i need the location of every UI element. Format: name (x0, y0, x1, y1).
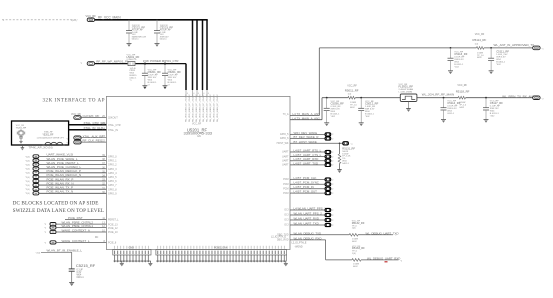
svg-text:L4 TX_MAIN_A_AN2: L4 TX_MAIN_A_AN2 (293, 116, 321, 120)
svg-text:*2(4): *2(4) (25, 185, 30, 187)
svg-text:PCIE_12: PCIE_12 (108, 227, 118, 230)
svg-text:UART: UART (282, 155, 289, 158)
svg-text:PA_VDD_MAIN_BT_2G4XX: PA_VDD_MAIN_BT_2G4XX (209, 94, 212, 122)
svg-text:XTAL_IN: XTAL_IN (108, 129, 118, 132)
svg-text:PCM: PCM (283, 192, 288, 195)
svg-text:*2(4): *2(4) (25, 177, 30, 179)
svg-text:C5113_RF: C5113_RF (454, 52, 467, 56)
svg-text:PA_VDD_MAIN_BT_2G4XX: PA_VDD_MAIN_BT_2G4XX (199, 94, 202, 122)
svg-text:GPIO_6: GPIO_6 (280, 137, 289, 140)
svg-text:R5114_RF: R5114_RF (473, 38, 487, 42)
svg-text:GCI: GCI (284, 209, 289, 212)
svg-text:GPIO_9: GPIO_9 (108, 192, 117, 195)
svg-text:32KOUT: 32KOUT (108, 117, 118, 120)
svg-text:C5117_RF: C5117_RF (490, 101, 503, 105)
svg-text:R5131_RF: R5131_RF (342, 147, 355, 151)
svg-text:CLK32K_RF: CLK32K_RF (83, 114, 100, 118)
svg-text:R5118_RF: R5118_RF (456, 89, 470, 93)
svg-text:Y5201_RF: Y5201_RF (16, 127, 27, 129)
svg-text:C5201_RF: C5201_RF (148, 70, 162, 74)
svg-text:WAKE_CONTEXT_A: WAKE_CONTEXT_A (62, 228, 90, 232)
svg-text:PA_VDD_MAIN_BT_2G4XX: PA_VDD_MAIN_BT_2G4XX (192, 94, 195, 122)
svg-text:PA_VDD_MAIN_BT_2G4XX: PA_VDD_MAIN_BT_2G4XX (206, 94, 209, 122)
svg-text:GPIO_6: GPIO_6 (108, 180, 117, 183)
svg-text:PA_VDD_MAIN_BT_2G4XX: PA_VDD_MAIN_BT_2G4XX (195, 94, 198, 122)
svg-text:WLAN_DEBUG_TXD: WLAN_DEBUG_TXD (294, 231, 322, 235)
svg-text:DC BLOCKS LOCATED ON AP SIDE: DC BLOCKS LOCATED ON AP SIDE (13, 201, 99, 207)
svg-text:0402-1: 0402-1 (160, 39, 168, 41)
svg-text:DC: DC (95, 237, 99, 239)
svg-text:0201-1: 0201-1 (447, 113, 455, 115)
svg-text:UART: UART (282, 151, 289, 154)
svg-text:*2(4): *2(4) (25, 189, 30, 191)
svg-text:WL_DEBUG_UART_RXD: WL_DEBUG_UART_RXD (367, 256, 400, 260)
svg-text:L4 BT_PCM_SYNC: L4 BT_PCM_SYNC (294, 181, 319, 185)
svg-text:C5201_RF: C5201_RF (168, 70, 182, 74)
svg-text:L.13X1.05MM: L.13X1.05MM (399, 91, 413, 93)
svg-text:PCM: PCM (283, 178, 288, 181)
svg-text:FL5001_RF: FL5001_RF (399, 84, 414, 88)
svg-text:R5132_RF: R5132_RF (352, 221, 365, 225)
svg-text:PA_VDD_MAIN_BT_2G4XX: PA_VDD_MAIN_BT_2G4XX (202, 94, 205, 122)
svg-text:WLAN_UART_RXD: WLAN_UART_RXD (294, 216, 320, 220)
svg-text:BT_HOST_WAKE: BT_HOST_WAKE (294, 140, 317, 144)
svg-text:GPIO_7: GPIO_7 (108, 184, 117, 187)
svg-text:32K INTERFACE TO AP: 32K INTERFACE TO AP (43, 98, 105, 103)
svg-text:0402-1: 0402-1 (342, 163, 349, 165)
svg-text:VCC_RF: VCC_RF (192, 123, 202, 125)
svg-text:WLAN_DEBUG_RXD: WLAN_DEBUG_RXD (294, 236, 322, 240)
svg-text:*402: *402 (365, 116, 370, 118)
svg-text:GPIO_3: GPIO_3 (108, 168, 117, 171)
svg-text:L2_IO_PTH_E: L2_IO_PTH_E (292, 243, 307, 245)
svg-text:GPIO_5: GPIO_5 (280, 133, 289, 136)
svg-text:PA_VDD_MAIN_BT_2G4XX: PA_VDD_MAIN_BT_2G4XX (216, 94, 219, 122)
svg-text:GPIO_0: GPIO_0 (108, 156, 117, 159)
svg-text:WLAN_UART_TXD: WLAN_UART_TXD (294, 221, 319, 225)
svg-text:R5011_RF: R5011_RF (345, 88, 359, 92)
svg-text:WL_RFIN_TX_RX_ANT: WL_RFIN_TX_RX_ANT (502, 94, 534, 98)
svg-text:L2_IO_PTH_E: L2_IO_PTH_E (271, 237, 286, 239)
svg-text:HOST_WK: HOST_WK (277, 142, 289, 145)
svg-text:UART: UART (282, 164, 289, 167)
svg-text:1.2X61(32K)-NOT DRIVE OPT: 1.2X61(32K)-NOT DRIVE OPT (37, 138, 65, 140)
svg-text:R5133_RF: R5133_RF (352, 246, 365, 250)
svg-text:PA_VDD_MAIN_BT_2G4XX: PA_VDD_MAIN_BT_2G4XX (213, 94, 216, 122)
svg-text:GCI: GCI (284, 219, 289, 222)
svg-text:PCIE_8: PCIE_8 (108, 242, 117, 245)
svg-text:WLAN_UART_PPS_2: WLAN_UART_PPS_2 (294, 211, 323, 215)
svg-text:C5012_RF: C5012_RF (365, 101, 379, 105)
svg-text:*402: *402 (454, 67, 459, 69)
svg-text:PA_VDD_MAIN_BT_2G4XX: PA_VDD_MAIN_BT_2G4XX (185, 94, 188, 122)
svg-text:*402: *402 (496, 64, 501, 66)
svg-text:GPIO_5: GPIO_5 (108, 176, 117, 179)
svg-text:WLAN_P5RE_CNTRL1: WLAN_P5RE_CNTRL1 (62, 224, 94, 228)
svg-text:GPIO_2: GPIO_2 (108, 164, 117, 167)
svg-text:*2(4): *2(4) (25, 173, 30, 175)
svg-text:GPIO_4: GPIO_4 (108, 172, 117, 175)
svg-text:XTAL_RF: XTAL_RF (44, 130, 53, 133)
svg-text:WL_2G4_RF_RF_MAIN: WL_2G4_RF_RF_MAIN (422, 92, 454, 96)
svg-text:*2(4): *2(4) (25, 165, 30, 167)
svg-text:TP4K_AP_XO (N): TP4K_AP_XO (N) (28, 145, 52, 149)
svg-text:VCC_RF: VCC_RF (457, 84, 467, 87)
svg-text:VCC_RF: VCC_RF (347, 84, 357, 87)
svg-text:UART: UART (282, 160, 289, 163)
svg-text:PCIE_10: PCIE_10 (108, 231, 118, 234)
svg-text:*2(4): *2(4) (25, 160, 30, 162)
svg-text:*2(4): *2(4) (25, 181, 30, 183)
svg-text:Y5201_RF: Y5201_RF (42, 134, 54, 136)
svg-text:L4 BT_UART_TXD: L4 BT_UART_TXD (294, 161, 319, 165)
svg-text:GN: GN (197, 136, 201, 138)
svg-text:PA_VDD_MAIN_BT_2G4XX: PA_VDD_MAIN_BT_2G4XX (188, 94, 191, 122)
svg-text:*2(4.0): *2(4.0) (70, 20, 77, 22)
svg-text:XTAL_AUX_RF: XTAL_AUX_RF (83, 134, 104, 138)
svg-text:2.2NH 2%: 2.2NH 2% (127, 59, 137, 61)
svg-text:-WGND: -WGND (295, 246, 303, 248)
svg-text:*2(4): *2(4) (25, 193, 30, 195)
svg-text:GCI: GCI (284, 214, 289, 217)
svg-text:GPIO_1: GPIO_1 (108, 160, 117, 163)
svg-text:PCM: PCM (283, 183, 288, 186)
svg-text:XTAL_IN_CLK: XTAL_IN_CLK (84, 126, 103, 130)
svg-text:SWIZZLE DATA LANE ON TOP LEVEL: SWIZZLE DATA LANE ON TOP LEVEL (13, 208, 104, 214)
svg-text:C5111_RF: C5111_RF (496, 50, 509, 54)
svg-text:RF_VCC_MAIN: RF_VCC_MAIN (98, 16, 121, 20)
svg-text:*2(4): *2(4) (25, 156, 30, 158)
svg-text:WL_ANT_IN_APPROVED_TX: WL_ANT_IN_APPROVED_TX (494, 43, 535, 47)
svg-text:WAKE_CONTEXT_L: WAKE_CONTEXT_L (62, 239, 90, 243)
svg-text:WLAN_BT_IB_ENABLE_L: WLAN_BT_IB_ENABLE_L (47, 249, 83, 253)
svg-text:XTAL_CTR: XTAL_CTR (108, 124, 121, 127)
svg-text:0201-1: 0201-1 (77, 277, 85, 279)
svg-text:RF_CLK_REQ: RF_CLK_REQ (83, 139, 103, 143)
svg-text:*2(4): *2(4) (36, 252, 41, 254)
svg-text:L4 BT_PCM_OUT: L4 BT_PCM_OUT (294, 190, 318, 194)
svg-text:L4 WLAN_UART_PPS_1: L4 WLAN_UART_PPS_1 (294, 206, 327, 210)
svg-text:339S00045-333: 339S00045-333 (184, 131, 213, 136)
svg-text:C5215_RF: C5215_RF (76, 263, 96, 268)
svg-text:BT_DEV_WAKE_R: BT_DEV_WAKE_R (294, 135, 319, 139)
svg-text:*402: *402 (331, 116, 336, 118)
svg-text:GCI: GCI (284, 224, 289, 227)
svg-text:PCM: PCM (283, 188, 288, 191)
svg-text:# RF POWER MIPI01_CTR: # RF POWER MIPI01_CTR (143, 59, 179, 63)
svg-text:L5201_RF: L5201_RF (127, 55, 140, 59)
svg-text:TX_A: TX_A (283, 113, 289, 116)
svg-text:1(4): 1(4) (348, 94, 352, 96)
svg-text:1(4): 1(4) (352, 253, 356, 255)
svg-text:VCC_RF: VCC_RF (475, 33, 485, 36)
svg-text:*402: *402 (490, 116, 495, 118)
svg-text:1(4): 1(4) (352, 228, 356, 230)
svg-text:PCIE_WLAN_TX_N: PCIE_WLAN_TX_N (47, 190, 74, 194)
svg-text:PERST_L: PERST_L (108, 219, 119, 222)
svg-text:*2(4): *2(4) (25, 169, 30, 171)
svg-text:L4 BT_UART_RTS_L: L4 BT_UART_RTS_L (294, 148, 322, 152)
svg-text:VCC_RF: VCC_RF (86, 14, 97, 18)
svg-text:GPIO_8: GPIO_8 (108, 188, 117, 191)
svg-text:DBG_RXD: DBG_RXD (277, 239, 289, 242)
svg-text:C5036_RF: C5036_RF (331, 101, 345, 105)
svg-text:0402-1: 0402-1 (132, 39, 140, 41)
svg-text:L4 BT_PCM_CLK: L4 BT_PCM_CLK (294, 176, 317, 180)
svg-text:1(4): 1(4) (475, 43, 479, 45)
